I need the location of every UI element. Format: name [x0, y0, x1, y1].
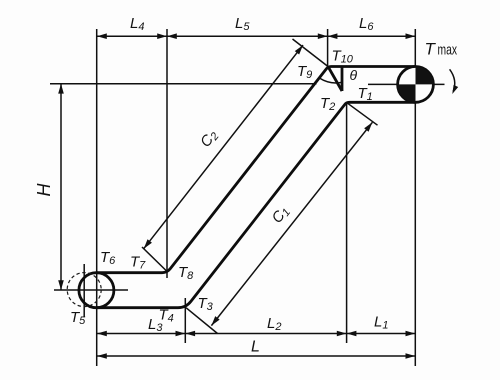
arrow L left end	[97, 353, 107, 359]
extension line T4 down (x=185.3)	[184, 298, 186, 343]
arrow L4 left end	[97, 33, 107, 39]
arrow L4/L5 pair	[157, 33, 167, 39]
extension line T2 down (x=346.6)	[346, 102, 348, 343]
arrow H bottom	[58, 280, 64, 290]
theta arc	[319, 78, 342, 83]
extension line L5/L6 (x=327.6)	[327, 29, 329, 66]
arrow L6 right end	[406, 33, 416, 39]
arrow C2 upper	[295, 43, 305, 54]
svg-text:T: T	[425, 40, 437, 59]
theta triangle hypotenuse	[328, 67, 342, 92]
arrow C2 lower	[141, 239, 151, 250]
C2 extension from apex	[293, 39, 329, 67]
arrow L1 right end	[406, 331, 416, 337]
arrow H top	[58, 84, 64, 94]
bottom dimension line L	[97, 355, 415, 357]
tail pulley horizontal centerline	[54, 289, 128, 291]
svg-text:max: max	[438, 42, 458, 59]
head pulley centerline left segment	[50, 83, 317, 85]
rotation arrowhead	[450, 85, 458, 95]
arrow L3 left end	[97, 331, 107, 337]
svg-text:L: L	[251, 339, 260, 356]
upper run: tail top -> T8 bend -> apex T10 -> head top	[96, 67, 415, 273]
C2 dimension line	[144, 45, 303, 249]
arrow L3/L2 pair	[176, 331, 186, 337]
extension line L4/L5 (x=167)	[166, 29, 168, 278]
extension line left (x=96.7)	[96, 29, 98, 366]
arrow L5/L6 pair	[318, 33, 328, 39]
arrow C1 lower	[209, 316, 219, 327]
C1 extension from T4	[186, 308, 218, 334]
bottom dimension line L3 L2 L1	[97, 333, 415, 335]
extension line right (x=415.3)	[414, 29, 416, 366]
C2 extension from T8	[142, 247, 167, 272]
rotation arrow arc at Tmax	[450, 69, 455, 91]
svg-text:H: H	[34, 183, 54, 197]
arrow L right end	[406, 353, 416, 359]
head pulley centerline right segment	[368, 83, 445, 85]
C1 extension from T2	[346, 102, 377, 125]
H dimension line	[60, 84, 62, 290]
lower run: tail bottom -> T4 bend -> T2 -> head bottom	[96, 102, 415, 307]
tail pulley (dashed circle) vertical centerline	[83, 264, 85, 317]
svg-text:θ: θ	[350, 67, 358, 83]
theta triangle vertical	[341, 67, 344, 92]
top dimension line y=36.2	[97, 35, 415, 37]
arrow C1 upper	[364, 121, 374, 132]
C1 dimension line	[211, 122, 372, 325]
arrow L2/L1 pair	[337, 331, 347, 337]
